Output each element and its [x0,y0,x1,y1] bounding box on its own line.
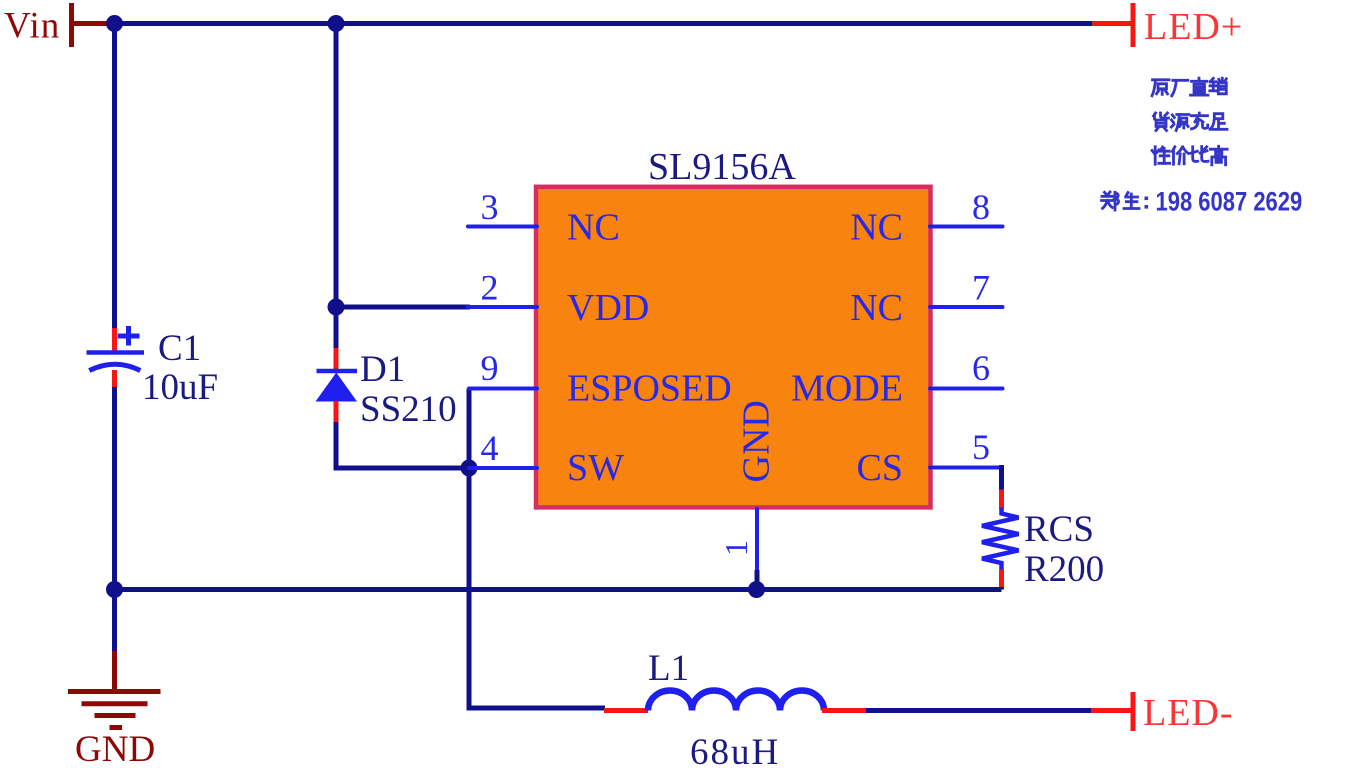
pin 9 stub [469,387,537,391]
svg-text:8: 8 [972,187,990,227]
svg-text:D1: D1 [360,349,405,390]
svg-text:SL9156A: SL9156A [648,146,796,188]
node junction SW [461,460,478,477]
svg-text:7: 7 [972,268,990,308]
pin 7 stub [930,305,1003,309]
port LED+ terminal bar [1131,3,1136,47]
wire left vertical from Vin to C1 [112,21,117,330]
annotation chinese line 1 (yuan chang zhi xiao) [1152,78,1226,96]
wire D1 branch vertical from top [334,21,339,350]
svg-text:5: 5 [972,427,990,467]
wire top horizontal net Vin [105,21,1094,26]
pin 2 stub [468,305,537,309]
annotation contact name (zheng sheng) [1102,192,1140,210]
svg-text:GND: GND [736,400,778,482]
wire red segment to LED- [1091,708,1131,713]
annotation chinese line 3 (xing jia bi gao) [1152,146,1227,165]
pin 4 stub [469,466,537,470]
wire to ground symbol [112,588,117,652]
wire pin9 vertical down to SW node [467,389,472,469]
svg-text:NC: NC [850,207,903,249]
pin 3 stub [468,225,537,229]
annotation colon [1145,197,1149,209]
svg-text:MODE: MODE [791,368,903,410]
svg-text:2: 2 [481,268,499,308]
wire bottom bus horizontal [115,587,1002,592]
svg-text:10uF: 10uF [142,367,218,408]
svg-text:NC: NC [850,287,903,329]
node junction VDD tap [328,299,345,316]
svg-text:9: 9 [481,348,499,388]
resistor RCS [982,490,1019,589]
annotation chinese line 2 (huo yuan chong zu) [1154,113,1228,131]
pin 6 stub [930,387,1003,391]
svg-text:RCS: RCS [1024,509,1094,550]
wire VDD horizontal [336,305,470,310]
node junction GND pin [748,581,765,598]
svg-text:4: 4 [481,428,499,468]
diode D1 [316,348,358,423]
capacitor C1 [87,326,145,388]
svg-text:VDD: VDD [567,287,649,329]
wire inductor red right lead [822,708,867,713]
svg-text:ESPOSED: ESPOSED [567,368,732,410]
wire inductor to LED- [866,708,1092,713]
port Vin terminal bar [71,3,108,47]
svg-text:198 6087 2629: 198 6087 2629 [1156,188,1303,217]
svg-text:CS: CS [857,447,903,489]
IC U1 SL9156A body [536,187,931,508]
svg-text:R200: R200 [1024,549,1104,590]
node junction bottom left [106,581,123,598]
svg-text:SW: SW [567,447,624,489]
svg-text:SS210: SS210 [360,389,457,430]
svg-text:6: 6 [972,348,990,388]
svg-text:L1: L1 [648,648,689,689]
svg-text:3: 3 [481,187,499,227]
node junction at D1 branch [328,15,345,32]
pin 1 stub vertical [755,509,759,571]
pin 8 stub [930,225,1003,229]
wire CS corner to resistor [999,465,1002,491]
svg-text:LED+: LED+ [1144,6,1243,48]
svg-text:1: 1 [718,540,754,556]
inductor L1 [648,691,824,711]
wire D1 cathode down and over to SW node [334,422,470,468]
ground [68,692,161,728]
svg-text:68uH: 68uH [690,732,780,768]
wire resistor bottom to bus [999,587,1004,590]
node junction at C1 branch [106,15,123,32]
wire red segment to LED+ [1092,21,1131,26]
pin 5 stub [930,466,1002,470]
svg-text:GND: GND [75,729,155,768]
wire pin1 to bus [755,570,760,590]
svg-text:Vin: Vin [4,6,60,47]
svg-text:C1: C1 [158,328,201,369]
svg-text:NC: NC [567,207,620,249]
port LED- terminal bar [1131,692,1136,731]
wire SW node down to inductor line [469,468,605,711]
svg-text:LED-: LED- [1143,692,1234,734]
wire left vertical from C1 to bottom bus [112,387,117,592]
wire inductor line red left lead [604,708,648,713]
